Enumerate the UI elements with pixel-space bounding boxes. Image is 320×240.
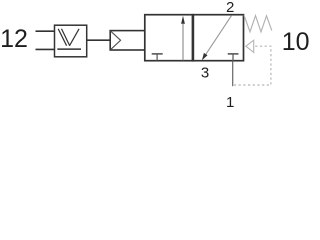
wire lower lead to solenoid xyxy=(36,48,56,50)
flow path up arrow (left square) xyxy=(181,16,185,61)
solenoid coil box xyxy=(55,25,87,57)
pneumatic pilot actuator box xyxy=(110,31,145,50)
solenoid coil symbol (double V with underline) xyxy=(57,29,81,49)
blocked port T (left square) xyxy=(152,54,163,61)
valve position divider xyxy=(192,14,195,62)
valve body outer frame xyxy=(145,15,244,61)
svg-text:3: 3 xyxy=(201,65,209,82)
svg-text:10: 10 xyxy=(282,28,309,56)
pilot actuator triangle xyxy=(111,31,121,50)
svg-text:2: 2 xyxy=(226,0,234,16)
wire upper lead to solenoid xyxy=(36,30,56,32)
pilot control dashed line xyxy=(233,46,271,85)
svg-text:1: 1 xyxy=(226,94,234,111)
flow path diagonal 2 to 3 (right square) xyxy=(202,16,232,61)
wire solenoid to pilot head xyxy=(87,39,111,41)
blocked port T (right square) xyxy=(228,54,239,61)
pilot return open arrowhead xyxy=(246,40,254,52)
return spring xyxy=(244,15,272,32)
port 1 connection line xyxy=(232,61,234,86)
svg-text:12: 12 xyxy=(0,25,28,53)
